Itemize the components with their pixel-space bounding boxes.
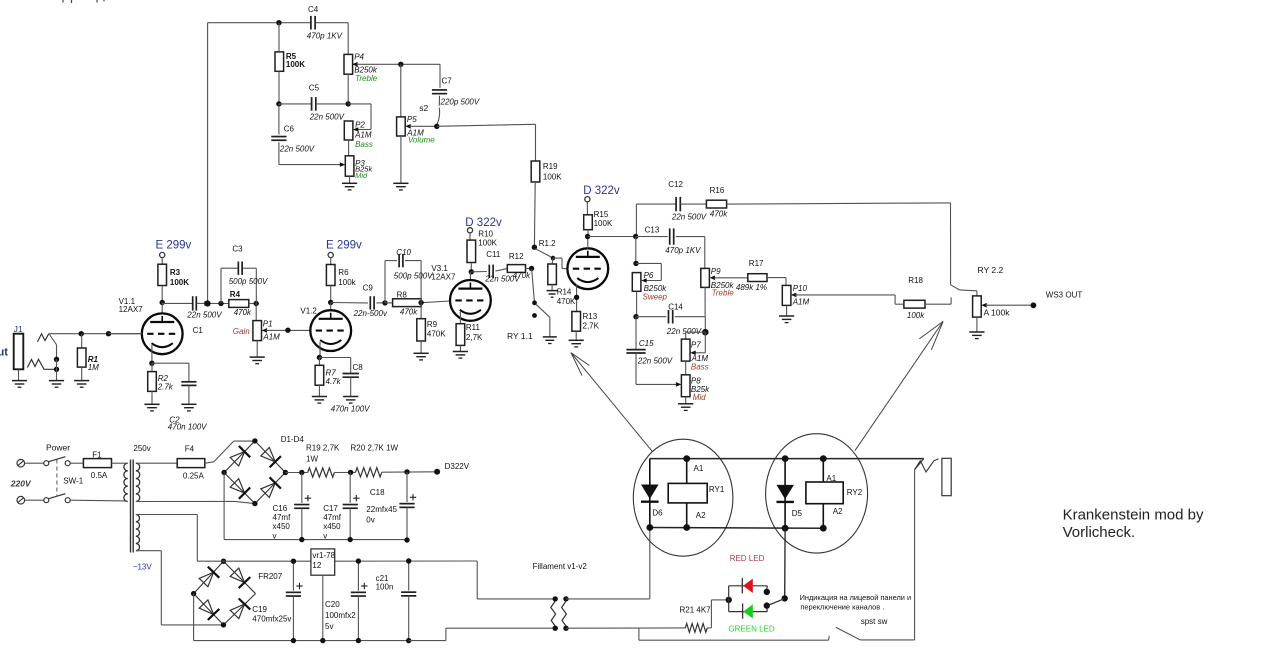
wire 250v bottom to bridge [136, 501, 255, 503]
svg-text:470k: 470k [234, 308, 252, 317]
relay circle RY1 [633, 439, 733, 556]
resistor R7 4.7k [315, 358, 342, 397]
wire bridge plus [285, 472, 307, 474]
capacitor C13 470p [636, 225, 705, 255]
svg-text:47mf: 47mf [323, 513, 342, 522]
svg-text:Bass: Bass [691, 362, 709, 371]
node tone2 input [633, 234, 638, 239]
resistor R18 100k [904, 276, 951, 320]
ground R1 [74, 381, 89, 388]
arrow to RY2.2 [855, 321, 943, 450]
resistor R12 470k [507, 252, 531, 280]
wire SW to primary bottom [70, 499, 126, 502]
svg-text:D322V: D322V [445, 462, 470, 471]
resistor R16 470k [706, 186, 950, 219]
label D 322v (V3.1) [465, 217, 502, 229]
capacitor C20 100mf [325, 561, 368, 641]
rectifier bridge FR207 [191, 559, 256, 628]
ground P8 [678, 404, 693, 411]
svg-text:E 299v: E 299v [326, 240, 362, 252]
ground R2 [144, 404, 159, 411]
svg-text:R19 2,7K: R19 2,7K [306, 443, 340, 452]
node P6 bottom / C14 / C15 [633, 314, 638, 319]
svg-text:22n 500V: 22n 500V [186, 311, 222, 320]
svg-text:470n 100V: 470n 100V [168, 423, 207, 432]
node grid wire [106, 331, 111, 336]
resistor R2 2.7k [148, 363, 174, 404]
svg-text:R20 2,7K 1W: R20 2,7K 1W [351, 443, 399, 452]
terminal D322v V3.1 [467, 228, 472, 240]
top edge cropped marks [63, 0, 104, 3]
svg-text:500p 500V: 500p 500V [229, 277, 268, 286]
svg-text:Fillament v1-v2: Fillament v1-v2 [533, 562, 588, 571]
svg-text:D 322v: D 322v [583, 185, 620, 197]
svg-text:RED LED: RED LED [730, 554, 765, 563]
resistor R20 2,7K 1W [351, 443, 438, 477]
label Power [46, 443, 70, 453]
svg-text:P2: P2 [355, 120, 365, 129]
resistor R13 2,7K [572, 312, 600, 341]
label A2 RY1 [696, 511, 706, 520]
capacitor c21 100n [376, 561, 417, 641]
node C18 bottom [404, 537, 409, 542]
node V1.2 plate [328, 300, 333, 305]
capacitor C19 470mf [252, 561, 302, 640]
diode D6 [641, 459, 663, 528]
filament connector 2 [562, 596, 569, 631]
svg-text:C3: C3 [232, 245, 243, 254]
svg-text:C17: C17 [323, 504, 338, 513]
svg-text:SW-1: SW-1 [63, 476, 83, 485]
node C20 bottom [356, 638, 361, 643]
svg-text:B250k: B250k [354, 66, 378, 75]
node vr1 ground [320, 638, 325, 643]
switch spst blade [836, 627, 915, 640]
capacitor C9 22n [331, 283, 388, 318]
wire top feed from C1 node to tone stack [208, 23, 349, 304]
svg-text:R19: R19 [543, 162, 558, 171]
wire V1.2 cathode [319, 342, 321, 358]
resistor R19 2,7K 1W [306, 443, 356, 477]
svg-text:D5: D5 [792, 509, 803, 518]
svg-text:4.7k: 4.7k [326, 377, 342, 386]
svg-text:C4: C4 [308, 5, 319, 14]
svg-text:~13V: ~13V [133, 563, 153, 572]
resistor R4 470k [229, 290, 256, 317]
wire 12V to filament line [477, 561, 555, 599]
svg-text:Power: Power [46, 443, 70, 453]
wire LED ground drop [639, 628, 829, 640]
svg-text:R6: R6 [338, 268, 349, 277]
svg-text:A1M: A1M [792, 297, 810, 306]
node C3 left [218, 301, 223, 306]
terminal 220V neutral [17, 496, 43, 504]
svg-text:100K: 100K [543, 172, 562, 181]
svg-text:R12: R12 [509, 252, 524, 261]
capacitor C12 22n [636, 180, 706, 221]
capacitor C1 22n [162, 296, 229, 335]
svg-text:1M: 1M [88, 363, 99, 372]
title text [1063, 506, 1204, 541]
wire C6 to P3 wiper [279, 162, 345, 167]
svg-text:470k: 470k [513, 271, 531, 280]
capacitor C4 [307, 5, 343, 41]
svg-text:WS3 OUT: WS3 OUT [1046, 290, 1083, 299]
pot P8 Mid [681, 375, 710, 404]
svg-text:100K: 100K [170, 278, 189, 287]
svg-text:0.25A: 0.25A [183, 472, 205, 481]
label spst sw [861, 617, 888, 626]
svg-text:100K: 100K [478, 239, 497, 248]
svg-text:C19: C19 [252, 605, 267, 614]
svg-text:P6: P6 [644, 271, 654, 280]
node R5 bottom / C5 / C6 [276, 101, 281, 106]
resistor R9 470K [417, 303, 446, 353]
svg-text:470K: 470K [557, 297, 576, 306]
svg-text:22n 500V: 22n 500V [309, 112, 345, 121]
ground jack [12, 381, 27, 388]
triode V4 [567, 237, 608, 290]
label RY 1.1 [507, 331, 533, 341]
svg-text:RY 1.1: RY 1.1 [507, 331, 533, 341]
svg-text:489k 1%: 489k 1% [736, 283, 767, 292]
node RY2 bottom [820, 525, 827, 532]
svg-text:100n: 100n [376, 582, 394, 591]
svg-text:C7: C7 [442, 77, 453, 86]
wire P9 bottom to P7 node [704, 317, 706, 333]
svg-text:P1: P1 [263, 319, 273, 328]
jack spring contact [915, 459, 939, 472]
pot P7 Bass [681, 332, 708, 375]
terminal WS3 OUT [1031, 290, 1083, 308]
ground A100k pot [969, 332, 984, 339]
node R5 top [276, 20, 281, 25]
svg-text:P9: P9 [711, 267, 721, 276]
resistor R5 [275, 23, 305, 104]
triode V3.1 [431, 264, 490, 321]
wire jack sleeve down [914, 470, 916, 640]
node c21 bottom [406, 638, 411, 643]
node D5 bottom [782, 525, 789, 532]
wire R1.2 to V4 grid [553, 258, 568, 269]
svg-text:vr1-78: vr1-78 [312, 551, 335, 560]
svg-text:C6: C6 [284, 125, 295, 134]
label 220V [10, 479, 32, 489]
svg-text:1W: 1W [306, 454, 318, 463]
transformer 250v winding [133, 444, 177, 501]
node V1.1 cathode [149, 361, 154, 366]
svg-text:470n 100V: 470n 100V [331, 404, 370, 413]
svg-text:V1.2: V1.2 [300, 307, 317, 316]
wire V1.1 grid [109, 333, 143, 335]
resistor R15 100K [584, 210, 613, 237]
label GREEN LED [728, 625, 774, 634]
node R12 right [529, 266, 534, 271]
svg-text:C13: C13 [645, 225, 660, 234]
node RY1 top [683, 455, 690, 462]
svg-text:R16: R16 [710, 186, 725, 195]
arrow to RY1.1 [571, 353, 652, 452]
label E 299v (V1.1) [156, 240, 192, 252]
svg-text:E 299v: E 299v [156, 240, 192, 252]
svg-text:R9: R9 [427, 320, 438, 329]
pot P5 Volume [397, 64, 437, 183]
svg-text:C20: C20 [325, 600, 340, 609]
svg-text:470p 1KV: 470p 1KV [665, 246, 701, 255]
svg-text:A 100k: A 100k [984, 307, 1011, 317]
label Cyrillic indication [800, 593, 912, 611]
resistor R21 4K7 [680, 600, 726, 632]
label E 299v (V1.2) [326, 240, 362, 252]
wire V4 cathode [576, 285, 578, 312]
svg-text:s2: s2 [419, 103, 428, 113]
capacitor C11 22n [471, 250, 520, 284]
svg-text:470mfx25v: 470mfx25v [252, 615, 291, 624]
wire bridge minus to rail [223, 473, 225, 540]
jack ring contact [27, 359, 56, 369]
svg-text:22n 500V: 22n 500V [637, 357, 673, 366]
node C5 right / P2 top [346, 101, 351, 106]
transformer 13V winding [136, 515, 224, 625]
resistor R11 2,7K [456, 323, 483, 351]
svg-text:2.7k: 2.7k [157, 382, 174, 391]
capacitor C16 47mf [273, 473, 312, 541]
svg-text:Input: Input [0, 347, 8, 359]
svg-text:Volume: Volume [408, 136, 435, 145]
svg-text:12AX7: 12AX7 [431, 272, 456, 281]
svg-text:C16: C16 [273, 504, 288, 513]
ground C2 [181, 404, 196, 411]
svg-text:2,7K: 2,7K [583, 321, 600, 330]
svg-text:12: 12 [312, 561, 321, 570]
label D 322v (V4) [583, 185, 620, 197]
svg-text:D1-D4: D1-D4 [281, 435, 305, 444]
svg-text:R14: R14 [557, 288, 572, 297]
node jack switch contacts [54, 357, 59, 381]
svg-text:A1M: A1M [354, 131, 372, 140]
node C19 top [291, 559, 296, 564]
svg-text:spst sw: spst sw [861, 617, 888, 626]
svg-text:2,7K: 2,7K [466, 333, 483, 342]
svg-text:220V: 220V [10, 479, 32, 489]
svg-text:22n-500v: 22n-500v [353, 309, 388, 318]
svg-text:переключение каналов .: переключение каналов . [800, 602, 884, 611]
svg-text:Bass: Bass [355, 140, 373, 149]
node V1.1 plate [160, 300, 165, 305]
svg-text:D6: D6 [652, 508, 663, 517]
terminal E299v V1.2 [328, 252, 333, 264]
capacitor C8 [319, 358, 370, 414]
switch SW-1 link [57, 460, 84, 498]
label FR207 [258, 572, 283, 581]
label A1 RY1 [694, 464, 704, 473]
svg-text:22n 500V: 22n 500V [279, 145, 315, 154]
resistor R10 100K [467, 229, 498, 271]
transformer primary winding [124, 463, 128, 501]
svg-text:47mf: 47mf [273, 513, 292, 522]
svg-text:0.5A: 0.5A [91, 471, 108, 480]
wire FR207 minus [193, 594, 195, 641]
pot P6 Sweep [632, 237, 667, 317]
wire volume to R19 [437, 124, 536, 161]
node R1.2 / R14 junction [551, 256, 556, 261]
LED red [742, 578, 753, 593]
diode D5 [777, 459, 803, 529]
svg-text:22mfx45: 22mfx45 [366, 505, 397, 514]
svg-text:470k: 470k [710, 209, 728, 218]
svg-text:C18: C18 [370, 488, 385, 497]
node C17 top [348, 470, 353, 475]
switch s2 [419, 103, 439, 125]
label A2 RY2 [833, 507, 843, 516]
node RY2 top [820, 455, 827, 462]
svg-text:22n 500V: 22n 500V [671, 213, 707, 222]
switch SW-1 upper [44, 457, 70, 466]
svg-text:FR207: FR207 [258, 572, 283, 581]
svg-text:R3: R3 [170, 268, 181, 277]
svg-text:100k: 100k [907, 311, 925, 320]
wire plate node up to C12 rail [635, 204, 637, 236]
svg-text:500p 500V: 500p 500V [394, 271, 433, 280]
ground P1 [250, 357, 265, 364]
capacitor C14 22n [636, 302, 705, 335]
wire V1.1 cathode [151, 345, 153, 363]
node D5 top [782, 455, 789, 462]
pot P9 Treble [701, 237, 748, 317]
svg-text:Sweep: Sweep [643, 293, 668, 302]
ground R9 [414, 353, 429, 360]
node C16 bottom [299, 537, 304, 542]
node C19 bottom [291, 638, 296, 643]
svg-text:A2: A2 [833, 507, 843, 516]
svg-text:Mid: Mid [693, 393, 706, 402]
svg-text:Mid: Mid [355, 171, 368, 180]
terminal 220V line [17, 459, 43, 467]
12V ground rail [194, 640, 409, 642]
ground jack contacts [49, 381, 64, 388]
svg-text:A2: A2 [696, 511, 706, 520]
LED bracket [729, 586, 768, 612]
svg-text:0v: 0v [366, 516, 374, 525]
ground R7 [312, 397, 327, 404]
svg-text:C9: C9 [363, 283, 374, 292]
node C10 left [382, 300, 387, 305]
node P4 wiper / P5 top [398, 62, 403, 67]
ground R13 [569, 340, 584, 347]
svg-text:R13: R13 [583, 312, 598, 321]
svg-text:Krankenstein mod by: Krankenstein mod by [1063, 506, 1204, 523]
svg-text:R17: R17 [749, 259, 764, 268]
node C16 top [299, 470, 304, 475]
pot P3 Mid [345, 156, 373, 184]
switch RY 2.2 [951, 265, 1004, 304]
svg-text:100K: 100K [286, 60, 305, 69]
label A1 RY2 [826, 474, 836, 483]
regulator vr1-7812 [311, 549, 336, 641]
svg-text:470p 1KV: 470p 1KV [307, 32, 343, 41]
svg-text:x450: x450 [273, 522, 291, 531]
svg-text:D 322v: D 322v [465, 217, 502, 229]
svg-text:J1: J1 [14, 324, 23, 334]
wire V3.1 cathode [459, 312, 461, 324]
node V4 cathode [574, 295, 579, 300]
capacitor C10 500p [385, 248, 433, 303]
svg-text:5v: 5v [325, 622, 333, 631]
pot P1 Gain [233, 304, 311, 357]
label Fillament v1-v2 [533, 562, 588, 571]
switch SW-1 lower [44, 494, 70, 503]
node R8 right / R9 top [418, 300, 423, 305]
fuse F1 0.5A [70, 450, 126, 480]
svg-text:F1: F1 [92, 450, 102, 459]
svg-text:R4: R4 [230, 290, 241, 299]
jack body [942, 458, 951, 495]
svg-text:v: v [273, 531, 277, 540]
resistor R3 100K [158, 264, 189, 302]
svg-text:R11: R11 [466, 323, 481, 332]
node R1.2 top [532, 245, 537, 250]
svg-text:P5: P5 [407, 115, 417, 124]
svg-text:A1: A1 [694, 464, 704, 473]
ground R14 [547, 291, 558, 298]
svg-text:22n 500V: 22n 500V [666, 327, 702, 336]
node D6 bottom [646, 524, 653, 531]
svg-text:12AX7: 12AX7 [119, 305, 144, 314]
pot P2 Bass [344, 104, 373, 156]
svg-text:Индикация на лицевой панели и: Индикация на лицевой панели и [800, 593, 912, 602]
wire P10 wiper to R18 [895, 295, 904, 304]
label D1-D4 [281, 435, 305, 444]
node tone stack tap [204, 300, 210, 306]
svg-text:C5: C5 [309, 84, 320, 93]
svg-text:R10: R10 [478, 229, 493, 238]
node C17 bottom [348, 537, 353, 542]
node LED bracket [726, 597, 732, 603]
wire ground rail step [409, 628, 556, 640]
transformer core [131, 460, 134, 553]
label R1.2 [539, 239, 556, 248]
svg-text:F4: F4 [185, 445, 195, 454]
ground RY1.1 [543, 337, 557, 344]
svg-text:470k: 470k [400, 307, 418, 316]
svg-text:C14: C14 [668, 302, 683, 311]
svg-text:GREEN LED: GREEN LED [728, 625, 774, 634]
jack tip contact [37, 334, 143, 360]
svg-text:v: v [323, 531, 327, 540]
capacitor C6 [271, 104, 315, 165]
node c21 top [406, 558, 411, 563]
wire rail to RY2.2 [950, 203, 952, 285]
switch R1.2 blade [536, 249, 553, 258]
triode V1.2 [300, 303, 351, 352]
relay RY1 coil [668, 459, 725, 528]
svg-text:250v: 250v [133, 444, 150, 453]
svg-text:R18: R18 [908, 276, 923, 285]
wire filament bottom continue [566, 627, 685, 629]
relay bottom rail [650, 527, 824, 530]
svg-text:Treble: Treble [355, 74, 378, 83]
label ~13V [133, 563, 153, 572]
ground P10 [779, 316, 794, 323]
wire F4 to bridge top [205, 441, 255, 463]
terminal E299v V1.1 [160, 252, 165, 264]
node P5 wiper [434, 124, 439, 129]
svg-text:P4: P4 [354, 53, 364, 62]
svg-text:RY2: RY2 [847, 488, 863, 497]
svg-text:P10: P10 [793, 284, 808, 293]
svg-text:470K: 470K [427, 330, 446, 339]
label J1 [14, 324, 23, 334]
